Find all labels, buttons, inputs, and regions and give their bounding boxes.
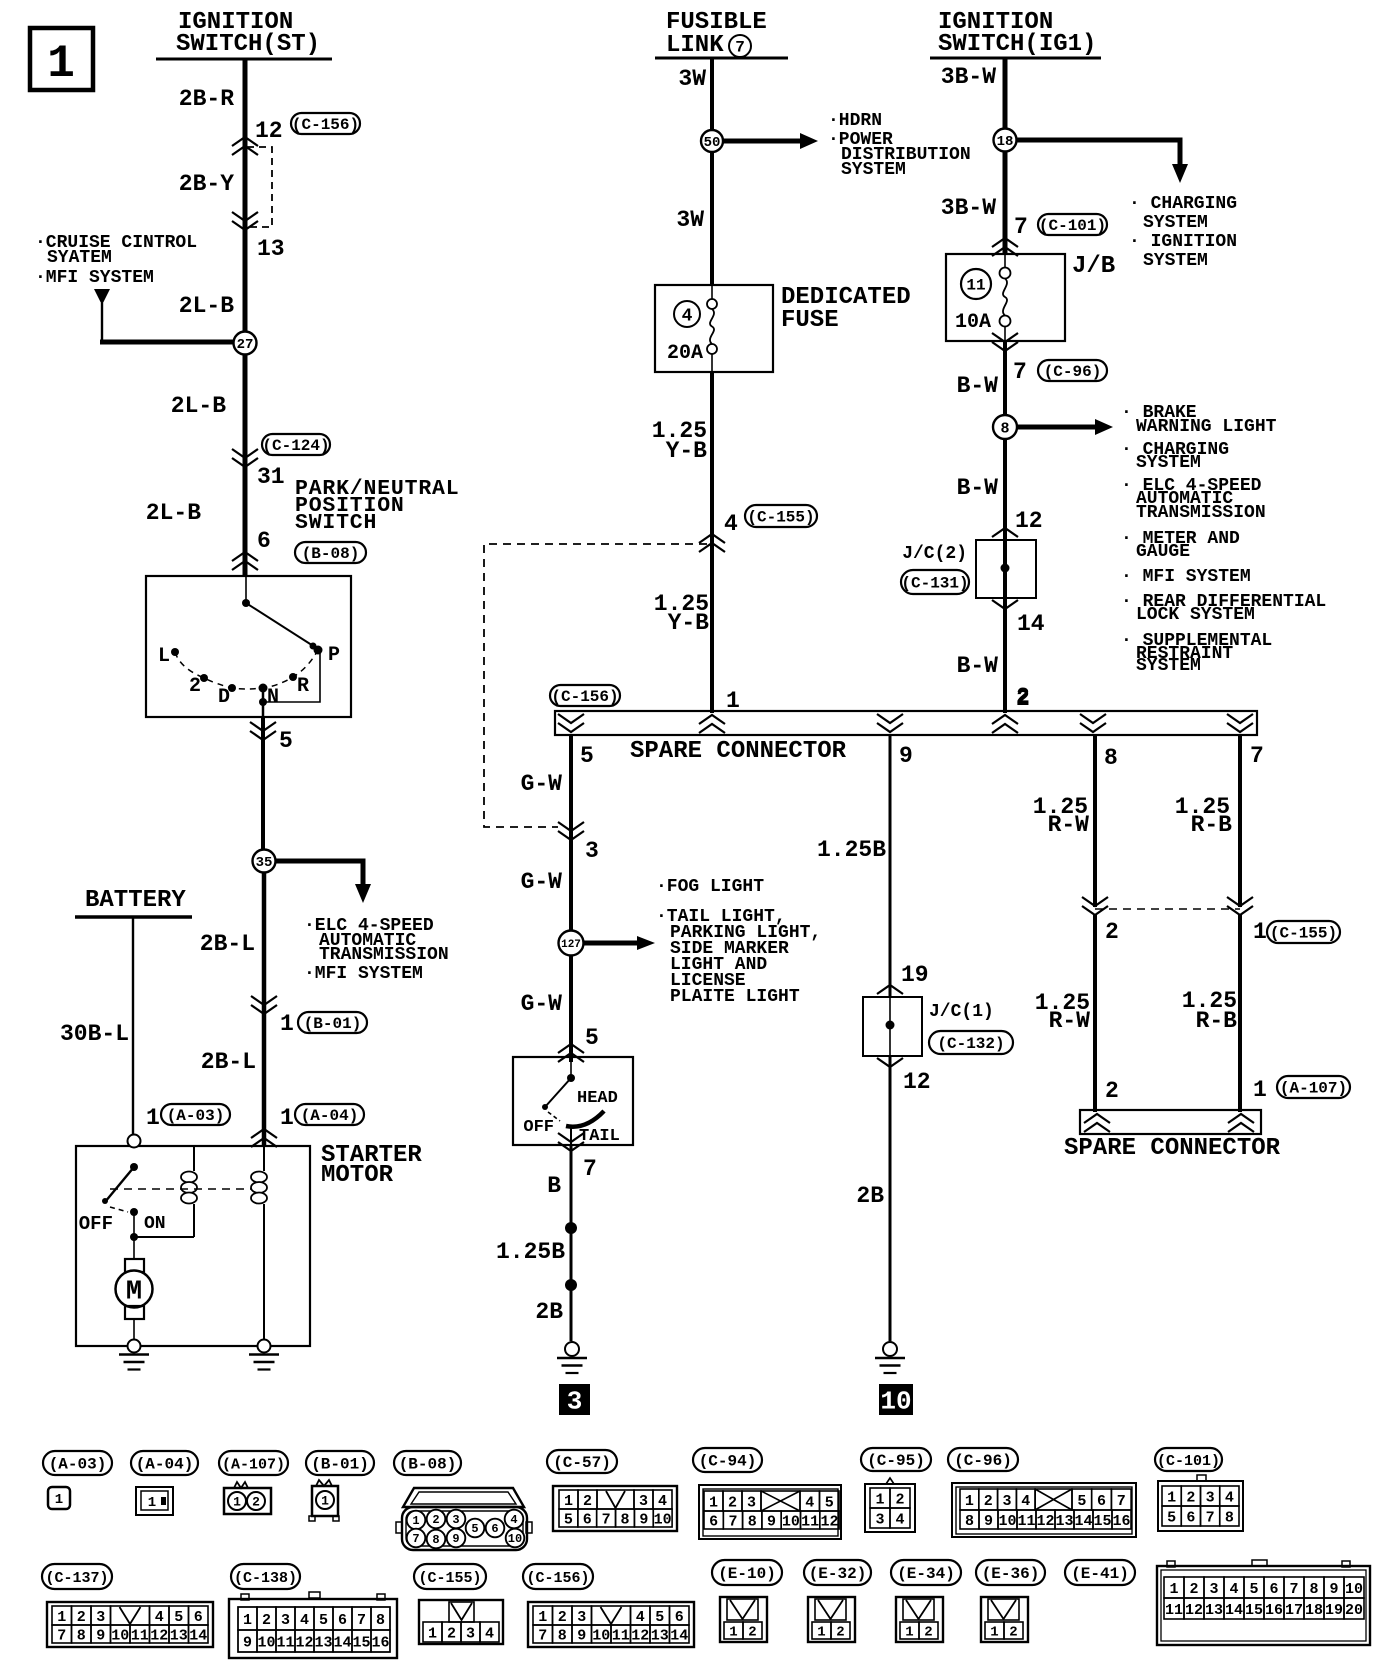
svg-text:R-B: R-B — [1196, 1008, 1238, 1034]
svg-text:2: 2 — [558, 1609, 567, 1626]
svg-text:13: 13 — [651, 1627, 669, 1644]
svg-text:7: 7 — [1013, 359, 1027, 385]
svg-text:1: 1 — [57, 1609, 66, 1626]
svg-text:J/C(2): J/C(2) — [902, 544, 967, 564]
svg-text:SYSTEM: SYSTEM — [1143, 251, 1208, 271]
svg-text:50: 50 — [704, 135, 721, 151]
svg-text:12: 12 — [1036, 1513, 1054, 1530]
svg-text:1: 1 — [233, 1495, 241, 1510]
svg-text:2: 2 — [1189, 1581, 1198, 1598]
svg-text:12: 12 — [1185, 1602, 1203, 1619]
svg-text:LOCK SYSTEM: LOCK SYSTEM — [1136, 605, 1255, 625]
svg-text:· MFI SYSTEM: · MFI SYSTEM — [1121, 567, 1251, 587]
svg-text:SYSTEM: SYSTEM — [841, 160, 906, 180]
svg-text:3: 3 — [1002, 1493, 1011, 1510]
svg-text:1: 1 — [428, 1625, 437, 1642]
svg-text:·FOG LIGHT: ·FOG LIGHT — [656, 877, 764, 897]
svg-text:HEAD: HEAD — [577, 1089, 618, 1108]
svg-text:18: 18 — [997, 134, 1014, 150]
svg-text:(E-32): (E-32) — [809, 1565, 867, 1583]
svg-text:2: 2 — [728, 1494, 737, 1511]
svg-text:2: 2 — [748, 1624, 756, 1640]
svg-text:7: 7 — [357, 1612, 366, 1629]
svg-text:27: 27 — [237, 337, 254, 353]
svg-text:N: N — [267, 686, 279, 709]
svg-text:B-W: B-W — [957, 653, 999, 679]
svg-text:3: 3 — [96, 1609, 105, 1626]
svg-text:6: 6 — [709, 1513, 718, 1530]
svg-text:10: 10 — [654, 1511, 672, 1528]
svg-text:1: 1 — [280, 1105, 294, 1131]
svg-text:2: 2 — [252, 1495, 260, 1510]
svg-text:(E-41): (E-41) — [1071, 1565, 1129, 1583]
svg-text:ON: ON — [144, 1214, 166, 1234]
svg-text:2: 2 — [1105, 1078, 1119, 1104]
svg-text:(C-155): (C-155) — [418, 1570, 481, 1587]
svg-text:13: 13 — [1055, 1513, 1073, 1530]
svg-text:5: 5 — [585, 1025, 599, 1051]
svg-text:3: 3 — [1206, 1489, 1215, 1506]
svg-text:2L-B: 2L-B — [179, 293, 234, 319]
svg-text:5: 5 — [825, 1494, 834, 1511]
svg-text:11: 11 — [966, 277, 985, 295]
svg-text:10: 10 — [1345, 1581, 1363, 1598]
svg-text:R-W: R-W — [1048, 812, 1090, 838]
svg-text:6: 6 — [583, 1511, 592, 1528]
svg-text:7: 7 — [602, 1511, 611, 1528]
svg-text:2L-B: 2L-B — [146, 500, 201, 526]
svg-text:4: 4 — [724, 511, 738, 537]
svg-text:13: 13 — [170, 1627, 188, 1644]
svg-text:3B-W: 3B-W — [941, 64, 996, 90]
svg-text:2: 2 — [1016, 684, 1030, 710]
svg-text:8: 8 — [1309, 1581, 1318, 1598]
svg-text:3: 3 — [281, 1612, 290, 1629]
svg-text:(C-155): (C-155) — [1270, 925, 1337, 943]
svg-text:2: 2 — [189, 675, 201, 698]
svg-text:3: 3 — [1209, 1581, 1218, 1598]
svg-text:R-W: R-W — [1049, 1008, 1091, 1034]
svg-text:7: 7 — [1206, 1509, 1215, 1526]
svg-text:5: 5 — [319, 1612, 328, 1629]
svg-text:4: 4 — [682, 306, 693, 326]
svg-text:(C-137): (C-137) — [45, 1570, 108, 1587]
svg-text:14: 14 — [333, 1634, 351, 1651]
svg-text:10: 10 — [880, 1387, 911, 1417]
svg-text:14: 14 — [1074, 1513, 1092, 1530]
svg-text:2B: 2B — [856, 1183, 884, 1209]
svg-text:12: 12 — [255, 118, 283, 144]
svg-text:14: 14 — [189, 1627, 207, 1644]
svg-text:3: 3 — [452, 1513, 459, 1527]
svg-text:(C-124): (C-124) — [262, 437, 329, 455]
svg-text:1: 1 — [729, 1624, 737, 1640]
svg-text:5: 5 — [564, 1511, 573, 1528]
svg-text:5: 5 — [1077, 1493, 1086, 1510]
svg-text:7: 7 — [583, 1156, 597, 1182]
svg-text:1: 1 — [148, 1495, 156, 1511]
svg-text:20: 20 — [1345, 1602, 1363, 1619]
svg-text:WARNING LIGHT: WARNING LIGHT — [1136, 417, 1277, 437]
svg-text:14: 14 — [670, 1627, 688, 1644]
svg-text:4: 4 — [895, 1511, 904, 1528]
svg-text:127: 127 — [561, 939, 581, 951]
svg-text:(E-10): (E-10) — [718, 1565, 776, 1583]
svg-text:(C-101): (C-101) — [1157, 1453, 1220, 1470]
svg-text:3: 3 — [875, 1511, 884, 1528]
svg-text:2B: 2B — [535, 1299, 563, 1325]
svg-text:(A-04): (A-04) — [301, 1107, 359, 1125]
svg-text:(A-107): (A-107) — [222, 1456, 285, 1473]
svg-text:6: 6 — [1097, 1493, 1106, 1510]
svg-text:11: 11 — [131, 1627, 149, 1644]
svg-text:7: 7 — [728, 1513, 737, 1530]
svg-text:2B-L: 2B-L — [201, 1049, 256, 1075]
svg-text:B: B — [547, 1173, 561, 1199]
svg-text:12: 12 — [820, 1513, 838, 1530]
svg-text:10: 10 — [111, 1627, 129, 1644]
svg-text:OFF: OFF — [523, 1118, 554, 1137]
svg-text:3: 3 — [747, 1494, 756, 1511]
svg-text:6: 6 — [675, 1609, 684, 1626]
svg-text:(E-34): (E-34) — [897, 1565, 955, 1583]
svg-text:1: 1 — [564, 1493, 573, 1510]
svg-text:(C-155): (C-155) — [747, 509, 814, 527]
svg-text:(C-131): (C-131) — [901, 575, 968, 593]
svg-text:3: 3 — [639, 1493, 648, 1510]
svg-text:R: R — [297, 675, 309, 698]
svg-text:R-B: R-B — [1191, 812, 1233, 838]
svg-text:16: 16 — [1112, 1513, 1130, 1530]
svg-text:2: 2 — [836, 1624, 844, 1640]
svg-text:12: 12 — [631, 1627, 649, 1644]
svg-text:2: 2 — [432, 1513, 439, 1527]
svg-text:4: 4 — [1229, 1581, 1238, 1598]
svg-text:SYATEM: SYATEM — [47, 248, 112, 268]
svg-text:(B-08): (B-08) — [302, 545, 360, 563]
svg-text:5: 5 — [1249, 1581, 1258, 1598]
svg-text:(C-138): (C-138) — [234, 1570, 297, 1587]
svg-text:1: 1 — [905, 1624, 913, 1640]
svg-text:2: 2 — [1105, 919, 1119, 945]
svg-text:(C-94): (C-94) — [699, 1453, 757, 1471]
svg-text:6: 6 — [338, 1612, 347, 1629]
svg-text:5: 5 — [655, 1609, 664, 1626]
svg-text:(C-156): (C-156) — [526, 1570, 589, 1587]
svg-text:1: 1 — [817, 1624, 825, 1640]
svg-text:15: 15 — [352, 1634, 370, 1651]
svg-text:1.25B: 1.25B — [496, 1239, 565, 1265]
svg-text:4: 4 — [300, 1612, 309, 1629]
svg-text:10: 10 — [782, 1513, 800, 1530]
svg-text:4: 4 — [1021, 1493, 1030, 1510]
svg-text:11: 11 — [801, 1513, 819, 1530]
svg-text:1: 1 — [1253, 1077, 1267, 1103]
svg-text:2L-B: 2L-B — [171, 393, 226, 419]
svg-text:(B-01): (B-01) — [311, 1456, 369, 1474]
svg-text:8: 8 — [1225, 1509, 1234, 1526]
svg-text:31: 31 — [257, 464, 285, 490]
svg-text:(A-107): (A-107) — [1280, 1080, 1347, 1098]
svg-text:18: 18 — [1305, 1602, 1323, 1619]
svg-text:(E-36): (E-36) — [982, 1565, 1040, 1583]
svg-text:(C-96): (C-96) — [1044, 363, 1102, 381]
svg-text:7: 7 — [538, 1627, 547, 1644]
svg-text:(C-95): (C-95) — [867, 1452, 925, 1470]
svg-text:10A: 10A — [955, 311, 991, 334]
svg-text:7: 7 — [412, 1532, 419, 1546]
svg-text:1: 1 — [55, 1492, 63, 1508]
svg-text:· IGNITION: · IGNITION — [1129, 232, 1237, 252]
svg-text:3: 3 — [577, 1609, 586, 1626]
svg-text:(C-96): (C-96) — [954, 1452, 1012, 1470]
svg-text:3W: 3W — [678, 66, 706, 92]
svg-text:SWITCH(ST): SWITCH(ST) — [176, 31, 320, 58]
svg-text:1: 1 — [875, 1491, 884, 1508]
svg-text:8: 8 — [376, 1612, 385, 1629]
svg-text:9: 9 — [452, 1532, 459, 1546]
svg-text:1: 1 — [1169, 1581, 1178, 1598]
svg-text:3: 3 — [567, 1387, 583, 1417]
svg-text:SYSTEM: SYSTEM — [1136, 453, 1201, 473]
svg-text:·MFI SYSTEM: ·MFI SYSTEM — [35, 268, 154, 288]
svg-text:7: 7 — [735, 39, 745, 57]
svg-text:6: 6 — [1269, 1581, 1278, 1598]
svg-text:TAIL: TAIL — [579, 1127, 620, 1146]
svg-text:SYSTEM: SYSTEM — [1143, 213, 1208, 233]
svg-text:6: 6 — [257, 528, 271, 554]
svg-text:M: M — [126, 1277, 142, 1307]
svg-text:(A-04): (A-04) — [136, 1456, 194, 1474]
svg-text:1: 1 — [412, 1514, 419, 1528]
svg-text:10: 10 — [257, 1634, 275, 1651]
svg-text:SYSTEM: SYSTEM — [1136, 656, 1201, 676]
svg-text:1: 1 — [243, 1612, 252, 1629]
svg-text:2: 2 — [984, 1493, 993, 1510]
svg-text:LINK: LINK — [666, 32, 724, 59]
svg-text:9: 9 — [639, 1511, 648, 1528]
svg-text:Y-B: Y-B — [668, 610, 710, 636]
svg-text:4: 4 — [510, 1513, 517, 1527]
svg-text:6: 6 — [491, 1522, 498, 1536]
svg-text:2: 2 — [77, 1609, 86, 1626]
svg-text:2B-L: 2B-L — [200, 931, 255, 957]
svg-text:6: 6 — [1186, 1509, 1195, 1526]
svg-text:· CHARGING: · CHARGING — [1129, 194, 1237, 214]
svg-text:30B-L: 30B-L — [60, 1021, 129, 1047]
svg-text:13: 13 — [257, 236, 285, 262]
svg-text:(A-03): (A-03) — [167, 1107, 225, 1125]
svg-text:9: 9 — [899, 743, 913, 769]
svg-text:1: 1 — [47, 38, 75, 90]
svg-text:1: 1 — [965, 1493, 974, 1510]
svg-text:TRANSMISSION: TRANSMISSION — [319, 945, 449, 965]
svg-text:1: 1 — [280, 1011, 294, 1037]
svg-text:·HDRN: ·HDRN — [828, 111, 882, 131]
svg-text:3W: 3W — [676, 207, 704, 233]
svg-text:7: 7 — [1014, 214, 1028, 240]
svg-text:(B-01): (B-01) — [304, 1015, 362, 1033]
svg-text:14: 14 — [1225, 1602, 1243, 1619]
svg-text:1: 1 — [321, 1494, 329, 1509]
svg-text:SWITCH(IG1): SWITCH(IG1) — [938, 31, 1096, 58]
svg-text:12: 12 — [903, 1069, 931, 1095]
svg-text:OFF: OFF — [79, 1213, 113, 1235]
svg-text:GAUGE: GAUGE — [1136, 542, 1190, 562]
svg-text:8: 8 — [432, 1533, 439, 1547]
svg-text:8: 8 — [77, 1627, 86, 1644]
svg-text:4: 4 — [805, 1494, 814, 1511]
svg-text:35: 35 — [256, 855, 273, 871]
svg-text:1: 1 — [1253, 919, 1267, 945]
svg-text:13: 13 — [1205, 1602, 1223, 1619]
svg-text:SPARE CONNECTOR: SPARE CONNECTOR — [630, 738, 847, 765]
svg-text:SPARE CONNECTOR: SPARE CONNECTOR — [1064, 1135, 1281, 1162]
svg-text:BATTERY: BATTERY — [85, 887, 186, 914]
svg-text:8: 8 — [620, 1511, 629, 1528]
svg-text:(C-101): (C-101) — [1039, 217, 1106, 235]
svg-text:·MFI SYSTEM: ·MFI SYSTEM — [304, 964, 423, 984]
svg-text:12: 12 — [1015, 508, 1043, 534]
svg-text:11: 11 — [1165, 1602, 1183, 1619]
svg-text:1: 1 — [538, 1609, 547, 1626]
svg-text:B-W: B-W — [957, 373, 999, 399]
svg-text:19: 19 — [901, 962, 929, 988]
svg-text:6: 6 — [194, 1609, 203, 1626]
svg-text:11: 11 — [1017, 1513, 1035, 1530]
svg-text:19: 19 — [1325, 1602, 1343, 1619]
svg-text:15: 15 — [1245, 1602, 1263, 1619]
svg-text:J/C(1): J/C(1) — [929, 1002, 994, 1022]
svg-text:J/B: J/B — [1072, 253, 1115, 280]
svg-text:5: 5 — [580, 743, 594, 769]
svg-text:9: 9 — [1329, 1581, 1338, 1598]
svg-text:9: 9 — [767, 1513, 776, 1530]
svg-text:3: 3 — [466, 1625, 475, 1642]
svg-text:FUSE: FUSE — [781, 307, 839, 334]
svg-text:4: 4 — [1225, 1489, 1234, 1506]
svg-text:TRANSMISSION: TRANSMISSION — [1136, 503, 1266, 523]
svg-text:8: 8 — [558, 1627, 567, 1644]
svg-text:4: 4 — [155, 1609, 164, 1626]
svg-text:(B-08): (B-08) — [399, 1456, 457, 1474]
svg-text:7: 7 — [1250, 743, 1264, 769]
svg-text:4: 4 — [485, 1625, 494, 1642]
svg-text:2: 2 — [262, 1612, 271, 1629]
svg-text:7: 7 — [1289, 1581, 1298, 1598]
svg-text:14: 14 — [1017, 611, 1045, 637]
svg-text:13: 13 — [314, 1634, 332, 1651]
svg-text:2: 2 — [1009, 1624, 1017, 1640]
svg-text:1: 1 — [990, 1624, 998, 1640]
svg-text:2B-R: 2B-R — [179, 86, 234, 112]
svg-text:Y-B: Y-B — [666, 438, 708, 464]
svg-text:9: 9 — [577, 1627, 586, 1644]
svg-text:PLAITE LIGHT: PLAITE LIGHT — [670, 987, 800, 1007]
svg-text:(C-156): (C-156) — [292, 116, 359, 134]
svg-text:17: 17 — [1285, 1602, 1303, 1619]
svg-text:8: 8 — [1000, 420, 1009, 437]
svg-text:9: 9 — [243, 1634, 252, 1651]
svg-text:7: 7 — [57, 1627, 66, 1644]
svg-text:D: D — [218, 686, 230, 709]
svg-text:4: 4 — [636, 1609, 645, 1626]
svg-text:1: 1 — [146, 1105, 160, 1131]
svg-text:(C-156): (C-156) — [551, 688, 618, 706]
svg-text:G-W: G-W — [521, 771, 563, 797]
svg-text:(A-03): (A-03) — [49, 1456, 107, 1474]
svg-text:8: 8 — [965, 1513, 974, 1530]
svg-text:1: 1 — [709, 1494, 718, 1511]
svg-text:3: 3 — [585, 838, 599, 864]
svg-text:SWITCH: SWITCH — [295, 511, 377, 535]
svg-text:2: 2 — [447, 1625, 456, 1642]
svg-text:20A: 20A — [667, 342, 703, 365]
svg-text:5: 5 — [174, 1609, 183, 1626]
svg-text:(C-132): (C-132) — [937, 1035, 1004, 1053]
svg-text:11: 11 — [612, 1627, 630, 1644]
svg-text:1: 1 — [1167, 1489, 1176, 1506]
svg-text:2: 2 — [924, 1624, 932, 1640]
svg-text:B-W: B-W — [957, 475, 999, 501]
svg-text:9: 9 — [984, 1513, 993, 1530]
svg-text:10: 10 — [998, 1513, 1016, 1530]
svg-text:3B-W: 3B-W — [941, 195, 996, 221]
svg-text:G-W: G-W — [521, 869, 563, 895]
svg-text:12: 12 — [150, 1627, 168, 1644]
svg-text:1.25B: 1.25B — [817, 837, 886, 863]
svg-text:MOTOR: MOTOR — [321, 1162, 394, 1189]
svg-text:16: 16 — [371, 1634, 389, 1651]
svg-text:7: 7 — [1117, 1493, 1126, 1510]
svg-text:2B-Y: 2B-Y — [179, 171, 234, 197]
svg-text:8: 8 — [748, 1513, 757, 1530]
svg-text:11: 11 — [276, 1634, 294, 1651]
svg-text:L: L — [158, 645, 170, 668]
svg-text:10: 10 — [592, 1627, 610, 1644]
svg-text:9: 9 — [96, 1627, 105, 1644]
svg-text:5: 5 — [1167, 1509, 1176, 1526]
svg-text:G-W: G-W — [521, 991, 563, 1017]
svg-text:(C-57): (C-57) — [553, 1454, 611, 1472]
svg-text:5: 5 — [471, 1522, 478, 1536]
svg-text:5: 5 — [279, 728, 293, 754]
svg-text:12: 12 — [295, 1634, 313, 1651]
svg-text:15: 15 — [1093, 1513, 1111, 1530]
svg-text:2: 2 — [583, 1493, 592, 1510]
svg-text:16: 16 — [1265, 1602, 1283, 1619]
svg-text:10: 10 — [508, 1532, 522, 1546]
svg-text:2: 2 — [1186, 1489, 1195, 1506]
svg-text:8: 8 — [1104, 745, 1118, 771]
svg-text:4: 4 — [658, 1493, 667, 1510]
svg-text:P: P — [328, 644, 340, 667]
svg-text:2: 2 — [895, 1491, 904, 1508]
